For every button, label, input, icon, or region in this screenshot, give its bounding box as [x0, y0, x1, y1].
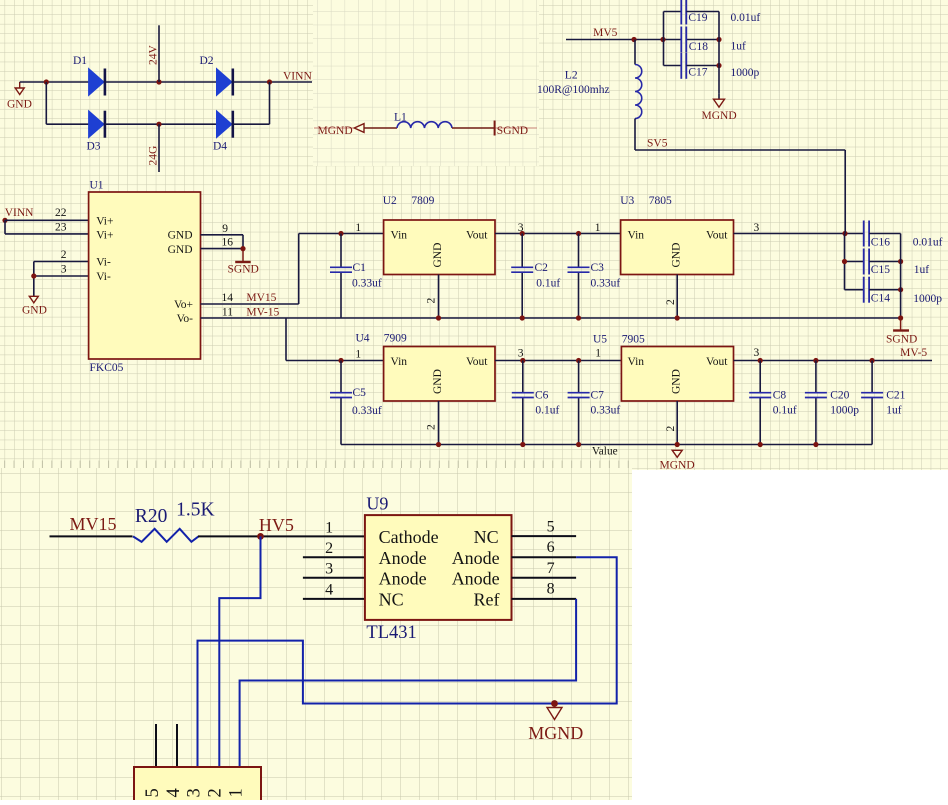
svg-text:3: 3 — [185, 788, 205, 797]
ground SGND (row1) — [900, 318, 902, 330]
svg-text:0.01uf: 0.01uf — [913, 237, 943, 249]
ground GND (bridge left) — [19, 82, 21, 88]
svg-text:9: 9 — [222, 223, 228, 235]
svg-text:C7: C7 — [591, 390, 605, 402]
svg-text:7905: 7905 — [622, 334, 645, 346]
svg-text:C6: C6 — [535, 390, 549, 402]
svg-text:3: 3 — [518, 348, 524, 360]
node junction C6 bottom — [520, 442, 525, 447]
capacitor C16 — [863, 221, 865, 247]
svg-text:2: 2 — [665, 299, 677, 305]
wire 24V stub — [158, 25, 160, 82]
wire MV15 riser — [298, 234, 300, 305]
svg-text:SGND: SGND — [497, 125, 528, 137]
svg-text:GND: GND — [432, 369, 444, 394]
wire top row mid — [105, 81, 217, 83]
svg-text:0.33uf: 0.33uf — [352, 278, 382, 290]
ground MGND (bottom) — [554, 704, 556, 708]
svg-text:8: 8 — [547, 581, 555, 598]
wire pin8 to connector pin1 — [240, 599, 576, 767]
svg-text:1000p: 1000p — [731, 67, 760, 79]
svg-text:11: 11 — [222, 307, 233, 319]
svg-text:Anode: Anode — [452, 568, 500, 588]
svg-text:C19: C19 — [688, 12, 707, 24]
svg-text:2: 2 — [61, 249, 67, 261]
wire row1 rail right — [734, 233, 864, 235]
wire bottom row right — [233, 123, 270, 125]
svg-text:GND: GND — [432, 243, 444, 268]
node junction C3 bottom — [576, 315, 581, 320]
node junction U4 pin2 gnd — [436, 442, 441, 447]
svg-text:0.33uf: 0.33uf — [352, 405, 382, 417]
wire row2 gnd rail — [341, 444, 872, 446]
wire SV5 — [635, 149, 845, 151]
wire U9 pin3 stub — [303, 577, 365, 579]
svg-text:L2: L2 — [565, 69, 578, 81]
svg-text:Vi-: Vi- — [96, 257, 111, 269]
svg-text:C20: C20 — [830, 390, 849, 402]
capacitor C2 — [521, 234, 523, 268]
wire C19 right rail — [718, 12, 720, 94]
svg-text:Cathode: Cathode — [379, 527, 439, 547]
wire connector pin5 stub — [155, 724, 157, 767]
svg-text:5: 5 — [143, 788, 163, 797]
wire bottom row left — [46, 123, 88, 125]
node junction C21 top — [870, 358, 875, 363]
node junction C15 right — [898, 259, 903, 264]
svg-text:16: 16 — [222, 237, 234, 249]
capacitor C15 — [845, 261, 864, 263]
regulator U4 body — [384, 347, 495, 402]
ground GND (U1) — [29, 296, 38, 303]
op-amp U1 body — [89, 192, 201, 359]
svg-text:C5: C5 — [353, 387, 367, 399]
node 24V junction — [156, 79, 161, 84]
svg-text:0.01uf: 0.01uf — [731, 12, 761, 24]
node junction VINN — [2, 218, 7, 223]
node junction C5 top — [338, 358, 343, 363]
svg-text:Vin: Vin — [391, 229, 408, 241]
svg-text:NC: NC — [474, 527, 499, 547]
wire L1 right — [452, 127, 495, 129]
node junction left top — [44, 79, 49, 84]
svg-text:1000p: 1000p — [913, 293, 942, 305]
capacitor C7 — [578, 361, 580, 393]
wire MV5 — [566, 39, 681, 41]
svg-text:Vi-: Vi- — [96, 271, 111, 283]
wire pin2 U3 — [676, 275, 678, 319]
svg-text:U3: U3 — [620, 195, 634, 207]
svg-text:U2: U2 — [383, 195, 397, 207]
svg-text:GND: GND — [671, 243, 683, 268]
ground SGND (U1) — [235, 261, 251, 263]
svg-text:0.1uf: 0.1uf — [773, 405, 797, 417]
svg-text:MGND: MGND — [660, 460, 695, 472]
svg-text:Anode: Anode — [379, 568, 427, 588]
inductor L1 — [397, 122, 452, 128]
wire top row right — [233, 81, 312, 83]
port MGND (L1) — [314, 127, 354, 129]
node 24G junction — [156, 122, 161, 127]
node junction C8 bottom — [758, 442, 763, 447]
svg-text:C1: C1 — [353, 262, 367, 274]
node junction U2 pin2 gnd — [436, 315, 441, 320]
svg-text:Vout: Vout — [466, 356, 488, 368]
svg-text:C21: C21 — [886, 390, 905, 402]
wire pin2 U4 — [438, 401, 440, 445]
wire U9 pin4 stub — [303, 598, 365, 600]
svg-text:MV15: MV15 — [246, 292, 276, 304]
svg-text:FKC05: FKC05 — [90, 362, 124, 374]
svg-text:4: 4 — [164, 788, 184, 797]
svg-text:L1: L1 — [394, 112, 407, 124]
band boundary tick comb — [5, 461, 629, 471]
op-amp U9 body — [365, 515, 512, 620]
wire U9 pin5 stub — [512, 535, 577, 537]
svg-text:22: 22 — [55, 207, 67, 219]
svg-text:1: 1 — [355, 349, 361, 361]
capacitor C19 — [664, 11, 682, 13]
svg-text:2: 2 — [665, 426, 677, 432]
svg-text:0.1uf: 0.1uf — [536, 278, 560, 290]
svg-text:7909: 7909 — [384, 333, 407, 345]
svg-text:SGND: SGND — [228, 263, 259, 275]
svg-text:TL431: TL431 — [366, 623, 416, 643]
capacitor C14 — [845, 289, 864, 291]
svg-text:2: 2 — [206, 788, 226, 797]
node junction C2 bottom — [520, 315, 525, 320]
svg-text:1: 1 — [595, 222, 601, 234]
svg-text:7805: 7805 — [649, 195, 672, 207]
connector J1 body — [134, 767, 261, 803]
node junction gnd rail end — [898, 315, 903, 320]
regulator U2 body — [384, 220, 495, 275]
svg-text:U1: U1 — [90, 180, 104, 192]
wire row1 rail left — [299, 233, 384, 235]
port SGND (L1) — [495, 127, 537, 129]
svg-text:7809: 7809 — [411, 195, 434, 207]
svg-text:MGND: MGND — [702, 110, 737, 122]
svg-text:14: 14 — [222, 292, 234, 304]
svg-text:1000p: 1000p — [830, 405, 859, 417]
capacitor C17 — [664, 65, 682, 67]
wire C16 right rail — [900, 234, 902, 319]
svg-text:GND: GND — [7, 99, 32, 111]
wire pin9 — [201, 234, 244, 236]
svg-text:C14: C14 — [871, 292, 890, 304]
wire pin14 Vo+ — [201, 303, 299, 305]
node junction pin16 — [240, 246, 245, 251]
svg-text:D1: D1 — [73, 55, 87, 67]
node junction C3 top — [576, 231, 581, 236]
svg-text:C17: C17 — [688, 67, 707, 79]
svg-text:24G: 24G — [148, 146, 160, 166]
svg-text:U5: U5 — [593, 334, 607, 346]
wire pin16 — [201, 248, 244, 250]
svg-text:NC: NC — [379, 589, 404, 609]
svg-text:VINN: VINN — [283, 71, 312, 83]
wire row1 rail mid — [495, 233, 621, 235]
wire SGND vertical — [242, 235, 244, 249]
svg-text:6: 6 — [547, 539, 555, 556]
svg-text:4: 4 — [325, 582, 333, 599]
capacitor C21 — [871, 361, 873, 393]
node junction C7 bottom — [576, 442, 581, 447]
svg-text:2: 2 — [426, 424, 438, 430]
svg-text:U4: U4 — [356, 333, 370, 345]
wire bottom row mid — [105, 123, 217, 125]
wire C16 left rail — [844, 234, 846, 290]
svg-text:Vin: Vin — [628, 356, 645, 368]
svg-text:3: 3 — [754, 347, 760, 359]
svg-text:MV-5: MV-5 — [900, 347, 927, 359]
capacitor C5 — [340, 361, 342, 393]
svg-text:1.5K: 1.5K — [176, 500, 214, 521]
wire pin23 — [5, 233, 89, 235]
wire pin2 — [34, 261, 89, 263]
wire top row left — [20, 81, 89, 83]
capacitor C3 — [578, 234, 580, 268]
svg-text:GND: GND — [671, 369, 683, 394]
svg-text:Anode: Anode — [452, 548, 500, 568]
svg-text:MGND: MGND — [318, 125, 353, 137]
svg-text:C16: C16 — [871, 236, 890, 248]
node junction C7 top — [576, 358, 581, 363]
svg-text:1: 1 — [227, 788, 247, 797]
node junction MGND tap — [551, 700, 558, 707]
wire pin2 U5 — [676, 401, 678, 445]
svg-text:HV5: HV5 — [259, 515, 294, 535]
node junction C15 left — [842, 259, 847, 264]
svg-text:GND: GND — [168, 244, 193, 256]
wire U9 pin2 stub — [303, 556, 365, 558]
svg-text:VINN: VINN — [5, 207, 34, 219]
svg-text:5: 5 — [547, 519, 555, 536]
svg-text:7: 7 — [547, 560, 555, 577]
diode D4 — [217, 111, 232, 138]
wire R20 to pin1 — [198, 535, 365, 537]
regulator U3 body — [621, 220, 734, 275]
wire U9 pin7 stub — [512, 577, 577, 579]
svg-text:2: 2 — [426, 298, 438, 304]
svg-text:Ref: Ref — [474, 589, 500, 609]
svg-text:D2: D2 — [200, 55, 214, 67]
wire right vertical — [269, 82, 271, 124]
wire U9 pin6 stub — [512, 556, 577, 558]
svg-text:1: 1 — [355, 222, 361, 234]
svg-text:0.33uf: 0.33uf — [591, 405, 621, 417]
svg-text:Anode: Anode — [379, 548, 427, 568]
node junction C2 top — [520, 231, 525, 236]
node junction C8 top — [758, 358, 763, 363]
wire U9 pin8 stub — [512, 598, 577, 600]
svg-text:C15: C15 — [871, 264, 890, 276]
svg-text:MV-15: MV-15 — [246, 307, 279, 319]
svg-text:D4: D4 — [213, 141, 227, 153]
resistor R20 — [133, 529, 199, 542]
node junction C20 top — [813, 358, 818, 363]
svg-text:Vo-: Vo- — [177, 313, 194, 325]
wire row2 rail left — [286, 360, 384, 362]
svg-text:1uf: 1uf — [886, 405, 902, 417]
capacitor C20 — [815, 361, 817, 393]
node junction L2 top — [631, 37, 636, 42]
svg-text:Value: Value — [592, 446, 618, 458]
svg-text:2: 2 — [325, 540, 333, 557]
svg-text:MGND: MGND — [528, 723, 583, 743]
svg-text:R20: R20 — [135, 506, 168, 527]
node junction C20 bottom — [813, 442, 818, 447]
node junction U3 pin2 gnd — [675, 315, 680, 320]
svg-text:C8: C8 — [773, 390, 787, 402]
wire 24G stub — [158, 124, 160, 172]
capacitor C1 — [340, 234, 342, 268]
svg-text:GND: GND — [22, 305, 47, 317]
node junction SV5/C16 — [842, 231, 847, 236]
inductor L2 — [634, 40, 636, 65]
svg-text:3: 3 — [61, 264, 67, 276]
node junction C17 right — [716, 63, 721, 68]
svg-text:1uf: 1uf — [914, 264, 930, 276]
svg-text:Vi+: Vi+ — [96, 229, 113, 241]
node junction U5 pin2 gnd — [675, 442, 680, 447]
svg-text:3: 3 — [754, 222, 760, 234]
wire pin22 — [5, 219, 89, 221]
diode D1 — [89, 69, 104, 96]
diode D2 — [217, 69, 232, 96]
node junction C18 left — [660, 37, 665, 42]
node VINN junction — [267, 79, 272, 84]
svg-text:Vout: Vout — [706, 356, 728, 368]
node junction C6 top — [520, 358, 525, 363]
svg-text:1: 1 — [595, 348, 601, 360]
svg-text:C3: C3 — [591, 262, 605, 274]
svg-text:1uf: 1uf — [731, 41, 747, 53]
node junction C18 right — [716, 37, 721, 42]
svg-text:MV5: MV5 — [593, 27, 618, 39]
capacitor C6 — [522, 361, 524, 393]
svg-text:GND: GND — [168, 230, 193, 242]
node junction C1 top — [338, 231, 343, 236]
ground MGND (top right) — [718, 94, 720, 100]
wire VINN vertical — [4, 220, 6, 234]
svg-text:SV5: SV5 — [647, 138, 668, 150]
wire MV15 lead — [50, 535, 133, 537]
svg-text:U9: U9 — [366, 494, 388, 514]
svg-text:C2: C2 — [535, 262, 549, 274]
wire row2 rail mid — [495, 360, 621, 362]
svg-text:0.1uf: 0.1uf — [535, 405, 559, 417]
svg-text:1: 1 — [325, 520, 333, 537]
svg-text:Vi+: Vi+ — [96, 215, 113, 227]
svg-text:C18: C18 — [689, 41, 708, 53]
wire left vertical — [45, 82, 47, 124]
capacitor C18 — [680, 27, 682, 53]
svg-text:100R@100mhz: 100R@100mhz — [537, 84, 610, 96]
svg-text:Vin: Vin — [391, 356, 408, 368]
svg-text:24V: 24V — [148, 45, 160, 66]
wire pin2 U2 — [438, 275, 440, 319]
svg-text:0.33uf: 0.33uf — [591, 278, 621, 290]
svg-text:Vout: Vout — [706, 229, 728, 241]
wire MV-15 drop — [285, 318, 287, 361]
wire connector pin4 stub — [176, 724, 178, 767]
svg-text:SGND: SGND — [886, 333, 917, 345]
wire C19 left rail — [663, 12, 665, 66]
node junction HV5 — [257, 533, 264, 540]
regulator U5 body — [621, 347, 733, 402]
wire pin6 to connector pin3 — [198, 557, 617, 767]
wire Vi- vertical — [33, 262, 35, 297]
svg-text:MV15: MV15 — [70, 514, 117, 534]
wire MV-15 / ground rail row1 — [201, 317, 901, 319]
node junction pin3 — [31, 273, 36, 278]
svg-text:3: 3 — [325, 561, 333, 578]
svg-text:Vout: Vout — [466, 229, 488, 241]
svg-text:23: 23 — [55, 222, 67, 234]
capacitor C8 — [759, 361, 761, 393]
svg-text:Vo+: Vo+ — [174, 299, 193, 311]
diode D3 — [89, 111, 104, 138]
ground MGND (row2) — [672, 450, 682, 457]
svg-text:Vin: Vin — [628, 229, 645, 241]
svg-text:D3: D3 — [87, 141, 101, 153]
wire row2 rail right — [734, 360, 933, 362]
wire L1 left — [364, 127, 397, 129]
wire pin3 — [34, 275, 89, 277]
wire HV5 to connector pin2 — [219, 536, 260, 767]
